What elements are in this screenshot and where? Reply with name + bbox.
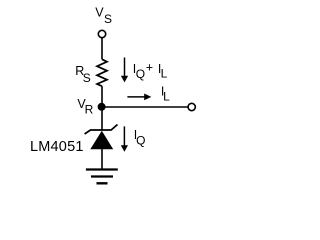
svg-text:S: S (104, 12, 112, 26)
label IQ (134, 128, 146, 148)
terminal VS (open circle) (98, 30, 105, 37)
label IQ + IL (133, 60, 168, 81)
wire: VS terminal to resistor top (101, 38, 103, 60)
current arrow IL (right) (127, 94, 151, 101)
node VS label (95, 6, 112, 26)
current arrow IQ (down) (121, 126, 128, 151)
diode anode triangle (90, 131, 113, 150)
svg-text:+: + (146, 60, 153, 74)
svg-text:L: L (163, 89, 170, 103)
output terminal (open circle) (188, 103, 195, 110)
current arrow IQ + IL (down) (121, 58, 128, 83)
svg-text:Q: Q (136, 67, 145, 81)
resistor RS (97, 59, 107, 86)
svg-text:V: V (95, 6, 104, 20)
svg-text:Q: Q (136, 134, 145, 148)
wire: diode anode to ground (101, 149, 103, 170)
label IL (161, 85, 170, 104)
svg-text:LM4051: LM4051 (30, 139, 84, 155)
svg-text:S: S (83, 71, 91, 85)
svg-text:L: L (161, 67, 168, 81)
node VR label (77, 97, 93, 117)
wire: node VR to output terminal (102, 106, 188, 108)
ground (86, 170, 118, 184)
resistor label RS (75, 64, 91, 85)
svg-text:R: R (85, 103, 94, 117)
zener cathode bar with bent ends (LM4051 shunt reference) (85, 125, 118, 135)
wire: resistor bottom to zener cathode (through node VR) (101, 86, 103, 130)
junction dot at node VR (98, 103, 106, 111)
